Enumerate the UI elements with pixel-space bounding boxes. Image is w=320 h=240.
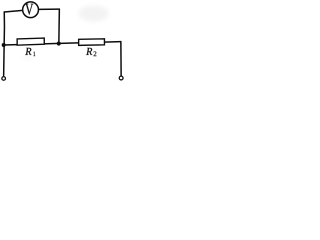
- terminal bottom-left: [2, 77, 6, 81]
- wire: vertical drop from top corner to middle junction: [58, 9, 61, 42]
- wire: middle horizontal rail: [4, 42, 121, 45]
- voltmeter U1 circle: [23, 2, 39, 18]
- terminal bottom-right: [119, 76, 123, 80]
- wire: top horizontal to voltmeter: [4, 10, 23, 12]
- resistor R2 body: [79, 39, 105, 46]
- label R2 letter R: [86, 48, 92, 55]
- node junction dot middle: [57, 41, 61, 45]
- wire: top horizontal from voltmeter to top-right corner: [38, 8, 59, 10]
- label R1 subscript 1: [33, 52, 35, 56]
- wire: left vertical from top corner to bottom-left terminal: [3, 12, 6, 75]
- node junction dot left: [2, 43, 6, 47]
- wire: right vertical drop to bottom-right terminal: [120, 42, 122, 76]
- label R2 subscript 2: [94, 51, 97, 56]
- resistor R1 body: [17, 38, 44, 45]
- label R1 letter R: [25, 48, 31, 55]
- voltmeter V label: [25, 4, 33, 15]
